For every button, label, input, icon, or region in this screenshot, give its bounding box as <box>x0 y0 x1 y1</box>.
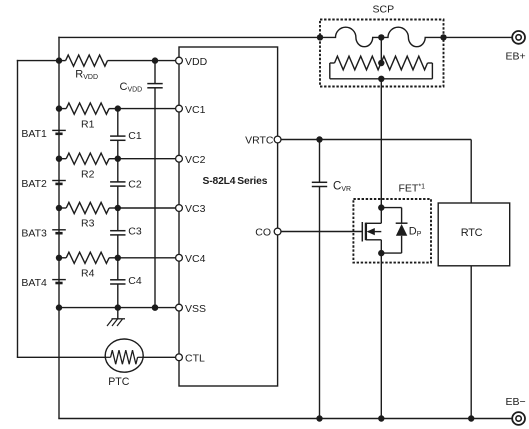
wire CVDD to VSS row <box>154 88 156 308</box>
wire battery column BAT2 <box>58 159 60 208</box>
svg-text:C4: C4 <box>128 275 142 287</box>
capacitor C1 <box>110 136 125 140</box>
fuse F1 (SCP first fuse) <box>320 27 381 47</box>
label C3 <box>128 226 142 238</box>
label R1 <box>81 118 95 130</box>
wire battery column VC1 <box>58 61 60 109</box>
wire C4 lower <box>117 284 119 308</box>
battery BAT1 <box>52 130 66 133</box>
wire battery column BAT3 <box>58 208 60 258</box>
label EB- <box>506 396 526 408</box>
pin VDD <box>176 56 208 68</box>
node R4 output junction <box>115 255 121 261</box>
capacitor C2 <box>110 182 125 186</box>
wire FET source to EB- rail <box>380 253 382 418</box>
resistor R2 <box>59 153 118 164</box>
node R2 output junction <box>115 156 121 162</box>
node SCP right terminal <box>440 34 446 40</box>
svg-text:VDD: VDD <box>185 56 208 68</box>
svg-text:VC1: VC1 <box>185 104 206 116</box>
svg-text:C2: C2 <box>128 179 142 191</box>
svg-text:SCP: SCP <box>373 3 395 15</box>
wire C3 upper <box>117 208 119 231</box>
svg-text:VC4: VC4 <box>185 253 206 265</box>
node R3 output junction <box>115 205 121 211</box>
wire fuse midpoint to heater <box>380 37 382 63</box>
wire left rail (CTL return) <box>17 60 59 357</box>
svg-text:R1: R1 <box>81 118 95 130</box>
node FET drain junction <box>378 204 384 210</box>
wire RTC to EB- rail <box>470 266 472 419</box>
wire CVR lower to EB- rail <box>319 187 321 419</box>
svg-text:R4: R4 <box>81 268 95 280</box>
label CVR <box>333 180 351 193</box>
label BAT2 <box>21 178 47 190</box>
wire battery bottom to EB- rail <box>58 308 60 419</box>
ground <box>107 308 125 326</box>
label SCP <box>373 3 395 15</box>
node CVDD bottom on VSS row <box>152 304 158 310</box>
wire R1 junction to VC pin <box>118 108 176 110</box>
label R3 <box>81 218 95 230</box>
label R4 <box>81 268 95 280</box>
svg-text:VC2: VC2 <box>185 154 206 166</box>
pin VC4 <box>176 253 206 265</box>
svg-text:C1: C1 <box>128 130 142 142</box>
wire CVDD upper <box>154 61 156 84</box>
label R2 <box>81 168 95 180</box>
label S-82L4 Series <box>203 176 268 187</box>
pin VC3 <box>176 203 206 215</box>
label BAT4 <box>21 277 47 289</box>
node CVR top <box>316 136 322 142</box>
fuse F2 (SCP second fuse) <box>381 27 443 47</box>
transistor FET box <box>353 199 431 263</box>
terminal EB- <box>512 412 525 425</box>
svg-text:VRTC: VRTC <box>245 135 274 147</box>
battery BAT4 <box>52 280 66 283</box>
label EB+ <box>506 51 526 63</box>
svg-text:PTC: PTC <box>108 376 130 388</box>
wire RVDD to VDD pin <box>155 60 176 62</box>
resistor R3 <box>59 202 118 213</box>
svg-text:BAT4: BAT4 <box>21 277 47 289</box>
svg-text:CTL: CTL <box>185 353 205 365</box>
battery BAT3 <box>52 230 66 233</box>
battery BAT2 <box>52 181 66 184</box>
wire PTC to CTL pin <box>143 356 176 358</box>
node C4 bottom VSS junction <box>115 304 121 310</box>
svg-text:S-82L4 Series: S-82L4 Series <box>203 176 268 187</box>
thermistor PTC <box>105 339 143 372</box>
node SCP fuse midpoint <box>378 34 384 40</box>
pin CTL <box>176 353 205 365</box>
wire C2 lower <box>117 186 119 208</box>
wire R2 junction to VC pin <box>118 158 176 160</box>
svg-text:RTC: RTC <box>461 227 483 239</box>
label RTC <box>461 227 483 239</box>
svg-text:R2: R2 <box>81 168 95 180</box>
wire C1 lower <box>117 140 119 158</box>
terminal EB+ <box>512 31 525 44</box>
pin VC1 <box>176 104 206 116</box>
svg-text:EB−: EB− <box>506 396 526 408</box>
wire CTL from left rail to PTC <box>17 356 106 358</box>
node BAT4 bottom VSS <box>56 304 62 310</box>
IC RTC body <box>438 203 510 266</box>
wire SCP heater output down to FET <box>380 79 382 208</box>
pin VSS <box>176 303 206 315</box>
IC U1 S-82L4 Series body <box>179 47 278 386</box>
svg-text:BAT3: BAT3 <box>21 227 47 239</box>
node BAT2 top <box>56 156 62 162</box>
wire R4 junction to VC pin <box>118 257 176 259</box>
svg-text:R3: R3 <box>81 218 95 230</box>
transistor Q1 MOSFET <box>362 208 381 254</box>
wire bottom EB- rail <box>58 418 512 420</box>
pin VRTC <box>245 135 281 147</box>
capacitor CVR <box>312 182 327 186</box>
wire VSS row <box>59 307 176 309</box>
label BAT3 <box>21 227 47 239</box>
wire battery column BAT1 <box>58 109 60 159</box>
node heater bottom junction <box>378 76 384 82</box>
pin CO <box>255 227 281 239</box>
node R1 output junction <box>115 105 121 111</box>
node heater center tap <box>378 60 384 66</box>
node CVR bottom on EB- rail <box>316 415 322 421</box>
wire R3 junction to VC pin <box>118 207 176 209</box>
wire C4 upper <box>117 258 119 280</box>
wire SCP to EB+ <box>444 36 513 38</box>
label BAT1 <box>21 128 47 140</box>
label DP <box>409 226 422 239</box>
label PTC <box>108 376 130 388</box>
label C2 <box>128 179 142 191</box>
resistor SCP heater <box>330 56 433 79</box>
node FET rail on EB- rail <box>378 415 384 421</box>
node VSS row at XV line <box>152 304 158 310</box>
node BAT3 top <box>56 205 62 211</box>
fuse-heater SCP box <box>320 20 444 87</box>
capacitor C3 <box>110 231 125 235</box>
wire battery column BAT4 <box>58 258 60 308</box>
resistor R1 <box>59 103 118 114</box>
wire C3 lower <box>117 235 119 258</box>
wire VRTC to RTC <box>281 140 471 204</box>
wire top rail from battery stack top to SCP <box>58 37 320 61</box>
node SCP left terminal <box>317 34 323 40</box>
resistor RVDD <box>59 55 155 66</box>
wire C1 upper <box>117 109 119 137</box>
node FET source junction <box>378 250 384 256</box>
label FET*1 <box>399 182 426 194</box>
svg-text:BAT1: BAT1 <box>21 128 47 140</box>
label RVDD <box>75 69 98 82</box>
pin VC2 <box>176 154 206 166</box>
svg-text:EB+: EB+ <box>506 51 526 63</box>
svg-text:C3: C3 <box>128 226 142 238</box>
node RTC on EB- rail <box>468 415 474 421</box>
svg-text:BAT2: BAT2 <box>21 178 47 190</box>
svg-text:VC3: VC3 <box>185 203 206 215</box>
node CVDD top <box>152 57 158 63</box>
node BAT4 top <box>56 255 62 261</box>
capacitor C4 <box>110 280 125 284</box>
diode DP <box>381 208 407 254</box>
node BAT1 top <box>56 105 62 111</box>
label C4 <box>128 275 142 287</box>
node battery top junction <box>56 57 62 63</box>
label C1 <box>128 130 142 142</box>
svg-text:CO: CO <box>255 227 271 239</box>
resistor R4 <box>59 252 118 263</box>
label CVDD <box>120 81 143 94</box>
wire CVR upper <box>319 140 321 183</box>
wire C2 upper <box>117 159 119 182</box>
svg-text:VSS: VSS <box>185 303 206 315</box>
wire CO to FET gate <box>281 231 362 233</box>
capacitor CVDD <box>147 84 162 88</box>
